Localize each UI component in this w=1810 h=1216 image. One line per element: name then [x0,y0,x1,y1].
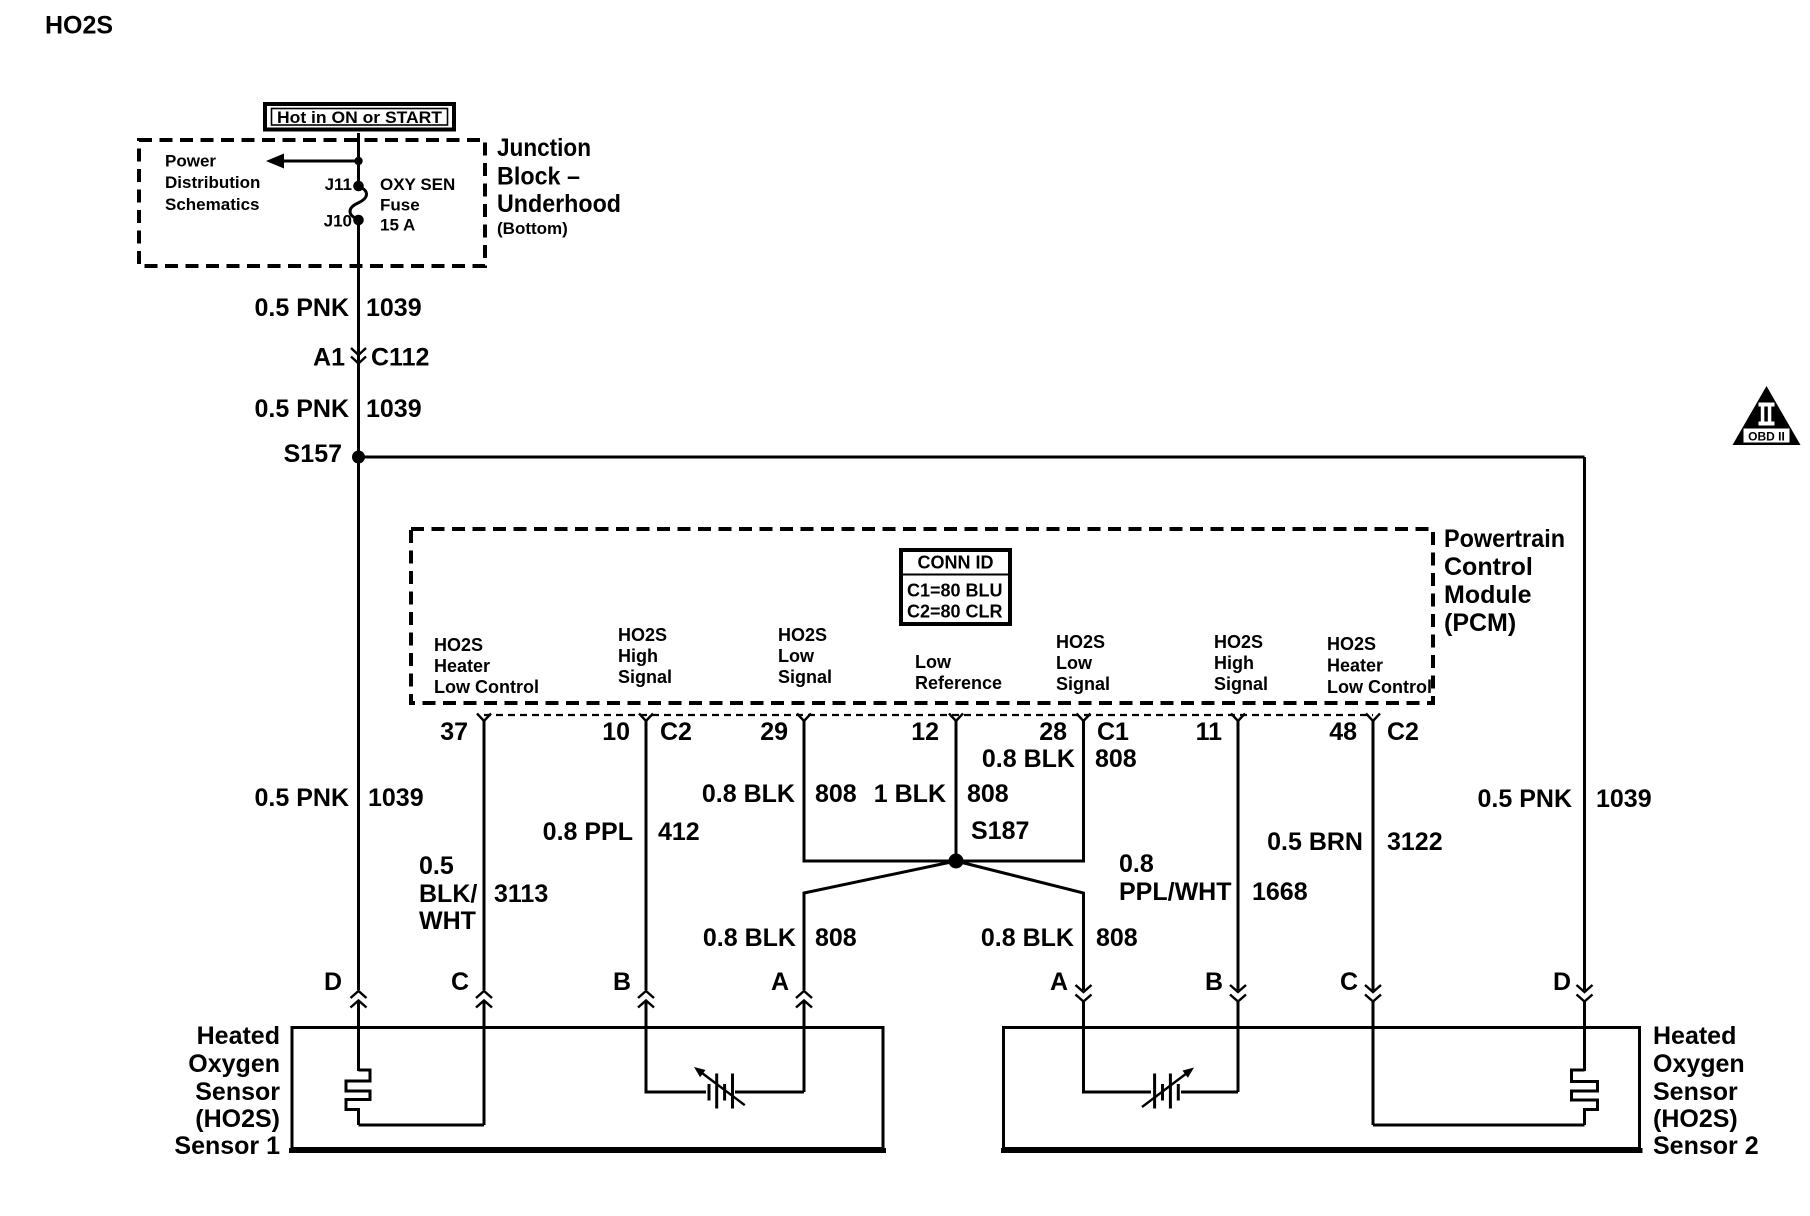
svg-text:3122: 3122 [1387,828,1443,856]
svg-text:HO2S: HO2S [434,635,483,655]
PCM pin 29 [760,714,811,747]
svg-text:0.5 PNK: 0.5 PNK [255,294,349,322]
junction block dashed box [139,140,485,266]
svg-text:1039: 1039 [366,294,422,322]
svg-text:37: 37 [440,718,468,746]
svg-text:1039: 1039 [366,395,422,423]
PCM connector dotted line [484,714,1373,716]
svg-text:1039: 1039 [1596,785,1652,813]
wire sensor 1 pin B into box [646,1001,706,1092]
wire label 0.5 PNK 1039 left [255,784,424,812]
svg-text:Oxygen: Oxygen [1653,1050,1745,1078]
splice S187 [949,817,1030,869]
wire pin 12 to splice S187 [955,721,958,861]
connector C112 pin A1 [313,344,429,372]
sensor element sensor 1 (variable voltage) [694,1067,745,1109]
svg-text:S187: S187 [971,817,1029,845]
svg-text:C112: C112 [371,344,429,372]
wire sensor 1 pin D into box [357,1001,360,1071]
PCM pin function label: Low Reference (pin 12) [915,652,1002,693]
svg-text:28: 28 [1039,718,1067,746]
PCM pin function label: HO2S Heater Low Control (pin 37) [434,635,539,697]
wire label 0.8 BLK 808 (pin 29) [702,780,857,808]
svg-text:(PCM): (PCM) [1444,609,1516,637]
wire from hot box into junction block [357,133,360,186]
PCM label [1444,525,1565,637]
OBD II symbol [1733,386,1801,445]
PCM pin function label: HO2S Low Signal (pin 28) [1056,632,1110,694]
wire label 0.8 PPL/WHT 1668 [1119,850,1308,906]
wire label 0.8 BLK 808 (sensor 1 pin A) [703,924,857,952]
svg-text:808: 808 [967,780,1009,808]
wire heater to pin C leg [359,1124,485,1127]
svg-text:412: 412 [658,818,700,846]
wire label 0.8 BLK 808 (pin 28) [982,745,1137,773]
svg-text:0.5 PNK: 0.5 PNK [255,395,349,423]
PCM pin function label: HO2S Heater Low Control (pin 48) [1327,634,1432,697]
svg-text:Block –: Block – [497,163,580,191]
sensor 1 pin A [771,968,812,1008]
sensor 2 pin B [1205,968,1246,1002]
svg-text:Signal: Signal [1056,674,1110,694]
svg-text:Low Control: Low Control [1327,677,1432,697]
PCM pin function label: HO2S High Signal (pin 10) [618,625,672,687]
svg-text:1668: 1668 [1252,878,1308,906]
svg-text:(HO2S): (HO2S) [1653,1105,1738,1133]
wire pin 11 to sensor 2 pin B [1237,721,1240,990]
PCM pin 12 [911,714,963,747]
svg-text:B: B [613,968,631,996]
svg-text:Low Control: Low Control [434,677,539,697]
wire label 0.5 BLK/WHT 3113 [419,852,548,935]
Hot in ON or START box [265,104,454,130]
svg-text:Sensor: Sensor [195,1078,280,1106]
svg-text:0.8 PPL: 0.8 PPL [543,818,633,846]
wire label 0.5 BRN 3122 [1267,828,1443,856]
sensor 2 label [1653,1022,1759,1160]
fuse OXY SEN 15 A [350,187,367,220]
svg-text:WHT: WHT [419,907,476,935]
svg-text:OXY SEN: OXY SEN [380,175,455,194]
PCM pin function label: HO2S Low Signal (pin 29) [778,625,832,687]
sensor 2 pin D [1553,968,1593,1002]
wire label 0.8 BLK 808 (sensor 2 pin A) [981,924,1138,952]
svg-text:Sensor 1: Sensor 1 [174,1132,280,1160]
svg-text:(HO2S): (HO2S) [195,1105,280,1133]
svg-text:Module: Module [1444,581,1532,609]
wire pin 29 to splice S187 [804,721,956,861]
svg-text:Low: Low [915,652,952,672]
svg-text:HO2S: HO2S [1327,634,1376,654]
PCM pin 48 C2 [1329,714,1419,747]
wire label 0.8 PPL 412 [543,818,700,846]
wire sensor 2 pin A into box [1084,1001,1152,1092]
junction J11 [353,181,364,192]
wire pin 48 to sensor 2 pin C [1372,721,1375,990]
svg-text:29: 29 [760,718,788,746]
svg-text:Distribution: Distribution [165,173,260,192]
svg-text:Signal: Signal [1214,674,1268,694]
splice S157 [284,440,365,468]
svg-text:HO2S: HO2S [618,625,667,645]
svg-text:C: C [1340,968,1358,996]
svg-text:HO2S: HO2S [1214,632,1263,652]
wire S187 to sensor 1 pin A [804,861,956,990]
svg-text:OBD II: OBD II [1748,430,1785,444]
svg-text:Power: Power [165,152,216,171]
svg-text:0.5 PNK: 0.5 PNK [1478,785,1572,813]
svg-text:15 A: 15 A [380,216,415,235]
svg-text:S157: S157 [284,440,342,468]
wire S187 to sensor 2 pin A [956,861,1084,990]
junction block label [497,134,621,238]
sensor 1 box [289,1028,886,1151]
svg-text:High: High [1214,653,1254,673]
svg-text:Junction: Junction [497,134,591,162]
svg-text:11: 11 [1196,718,1223,746]
wire sensor 1 pin A into box [803,1001,806,1092]
PCM pin 11 [1196,714,1245,747]
wire label 0.5 PNK 1039 [255,294,422,322]
svg-text:Underhood: Underhood [497,190,621,218]
svg-text:Hot in ON or START: Hot in ON or START [277,108,443,127]
svg-text:808: 808 [815,924,857,952]
wire label 0.5 PNK 1039 right [1478,785,1652,813]
svg-text:HO2S: HO2S [1056,632,1105,652]
svg-text:Heater: Heater [1327,656,1383,676]
svg-text:Heated: Heated [1653,1022,1736,1050]
PCM pin function label: HO2S High Signal (pin 11) [1214,632,1268,694]
svg-text:C: C [451,968,469,996]
sensor 1 pin B [613,968,654,1008]
svg-text:12: 12 [911,718,939,746]
svg-text:0.5: 0.5 [419,852,454,880]
sensor element sensor 2 (variable voltage) [1142,1068,1194,1109]
svg-text:Reference: Reference [915,673,1002,693]
sensor 2 box [1001,1028,1643,1151]
svg-text:High: High [618,646,658,666]
PCM dashed box [411,529,1433,703]
svg-text:D: D [1553,968,1571,996]
svg-text:D: D [324,968,342,996]
svg-text:Powertrain: Powertrain [1444,525,1565,553]
svg-text:Schematics: Schematics [165,195,260,214]
wire pin 28 to splice S187 [956,721,1084,861]
wire fuse to S157 [357,221,360,457]
svg-text:A: A [1050,968,1068,996]
svg-text:1039: 1039 [368,784,424,812]
PCM pin 28 C1 [1039,714,1129,747]
svg-text:0.8: 0.8 [1119,850,1154,878]
svg-text:Control: Control [1444,553,1533,581]
svg-text:BLK/: BLK/ [419,880,477,908]
svg-text:J11: J11 [325,175,352,194]
wire sensor element to pin A leg [735,1091,804,1094]
PCM pin 37 [440,714,491,747]
wire sensor 2 pin B into box [1237,1001,1240,1092]
svg-text:Signal: Signal [618,667,672,687]
wire label 0.5 PNK 1039 [255,395,422,423]
sensor 2 pin C [1340,968,1381,1002]
wire sensor 1 pin C into box [483,1001,486,1125]
heater element sensor 2 [1572,1070,1598,1125]
svg-text:HO2S: HO2S [45,12,113,40]
svg-text:A: A [771,968,789,996]
svg-text:Heated: Heated [197,1022,280,1050]
svg-text:808: 808 [815,780,857,808]
svg-text:A1: A1 [313,344,345,372]
svg-text:808: 808 [1096,924,1138,952]
PCM pin 10 C2 [602,714,692,747]
wire S157 horizontal to right branch [359,456,1585,459]
svg-text:CONN ID: CONN ID [918,553,994,573]
svg-text:Fuse: Fuse [380,196,420,215]
svg-text:3113: 3113 [494,880,548,908]
wire pin 37 to sensor 1 pin C [483,721,486,990]
svg-text:B: B [1205,968,1223,996]
wire S157 down to sensor 1 pin D [357,457,360,990]
heater element sensor 1 [346,1070,370,1125]
svg-text:0.8 BLK: 0.8 BLK [982,745,1075,773]
svg-text:10: 10 [602,718,630,746]
svg-text:0.5 PNK: 0.5 PNK [255,784,349,812]
svg-text:J10: J10 [324,212,352,231]
svg-text:0.8 BLK: 0.8 BLK [702,780,795,808]
svg-text:Low: Low [778,646,815,666]
svg-text:C1=80 BLU: C1=80 BLU [907,581,1003,601]
svg-text:C1: C1 [1097,718,1129,746]
arrow to power distribution [266,154,363,169]
svg-text:Oxygen: Oxygen [188,1050,280,1078]
svg-text:HO2S: HO2S [778,625,827,645]
wire label 1 BLK 808 (pin 12) [874,780,1009,808]
svg-text:C2=80 CLR: C2=80 CLR [907,602,1003,622]
svg-text:Signal: Signal [778,667,832,687]
svg-text:PPL/WHT: PPL/WHT [1119,878,1232,906]
sensor 2 pin A [1050,968,1092,1002]
CONN ID table [901,550,1010,624]
wire pin 10 to sensor 1 pin B [645,721,648,990]
wire sensor element to pin B leg [1181,1091,1238,1094]
wire right branch down to sensor 2 pin D [1583,457,1586,990]
svg-text:0.8 BLK: 0.8 BLK [981,924,1074,952]
sensor 1 pin C [451,968,492,1008]
wire sensor 2 pin D into box [1583,1001,1586,1071]
svg-text:48: 48 [1329,718,1357,746]
wire sensor 2 pin C into box [1372,1001,1375,1125]
svg-text:Heater: Heater [434,656,490,676]
power distribution schematics label [165,152,260,215]
svg-text:C2: C2 [660,718,692,746]
sensor 1 label [174,1022,280,1160]
junction J10 [353,215,364,226]
sensor 1 pin D [324,968,367,1008]
svg-text:Low: Low [1056,653,1093,673]
svg-text:1 BLK: 1 BLK [874,780,946,808]
svg-text:0.5 BRN: 0.5 BRN [1267,828,1363,856]
svg-text:C2: C2 [1387,718,1419,746]
svg-text:Sensor: Sensor [1653,1078,1738,1106]
wire heater to pin C leg [1373,1124,1585,1127]
svg-text:808: 808 [1095,745,1137,773]
svg-text:(Bottom): (Bottom) [497,219,568,238]
svg-text:0.8 BLK: 0.8 BLK [703,924,796,952]
svg-text:Sensor 2: Sensor 2 [1653,1132,1759,1160]
